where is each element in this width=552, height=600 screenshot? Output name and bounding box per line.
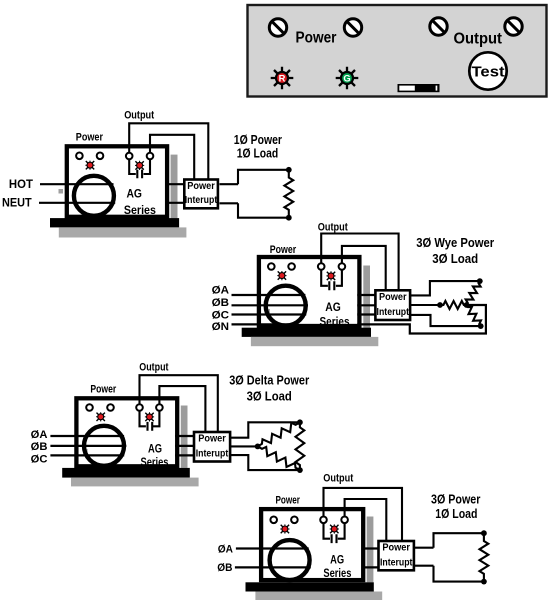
relay contact symbol (diag3) bbox=[140, 411, 160, 431]
wire output L terminal to interrupter (diag3) bbox=[140, 375, 218, 431]
wire output L terminal to interrupter (diag2) bbox=[321, 234, 398, 290]
svg-text:AG: AG bbox=[126, 187, 142, 201]
CT toroid (diag1) bbox=[74, 176, 114, 216]
AG monitor chassis box (diag1) bbox=[67, 146, 167, 217]
svg-text:Interupt: Interupt bbox=[196, 448, 229, 459]
label Output (diag3) bbox=[139, 362, 169, 374]
wire interrupter phase B to wye left (diag2) bbox=[411, 304, 440, 306]
svg-text:Power: Power bbox=[379, 292, 407, 303]
power input terminal 2 (diag3) bbox=[107, 404, 114, 411]
AG monitor chassis box (diag2) bbox=[259, 257, 360, 326]
output terminal R (diag1) bbox=[147, 153, 154, 160]
svg-text:AG: AG bbox=[325, 300, 341, 314]
svg-text:ØB: ØB bbox=[31, 441, 48, 453]
wye resistor R3 upper diagonal bbox=[466, 281, 481, 305]
svg-text:Interupt: Interupt bbox=[377, 307, 410, 318]
screw top-right bbox=[505, 18, 522, 35]
node wye center (diag2) bbox=[464, 302, 470, 308]
power input terminal 2 (diag2) bbox=[288, 263, 295, 270]
svg-text:Power: Power bbox=[296, 30, 337, 47]
output terminal R (diag2) bbox=[339, 263, 346, 270]
power interrupter box U3 (diag3) bbox=[194, 432, 230, 462]
red indicator LED R bbox=[271, 67, 294, 90]
svg-text:ØB: ØB bbox=[217, 562, 232, 574]
base shadow (diag1) bbox=[59, 227, 187, 237]
output terminal L (diag4) bbox=[320, 517, 327, 524]
wire interrupter to load top (diag4) bbox=[414, 547, 434, 549]
wire interrupter phase C to delta bottom (diag3) bbox=[231, 455, 300, 470]
green indicator LED G bbox=[336, 67, 359, 90]
svg-text:ØB: ØB bbox=[212, 297, 229, 309]
label phase C (diag3) bbox=[31, 453, 48, 465]
chassis base bar (diag3) bbox=[62, 468, 190, 478]
wire output L terminal to interrupter (diag4) bbox=[324, 488, 403, 540]
chassis base bar (diag1) bbox=[50, 218, 179, 227]
svg-text:Power: Power bbox=[382, 543, 410, 554]
load resistor R1 (diag1) bbox=[284, 170, 293, 218]
output terminal L (diag2) bbox=[318, 263, 325, 270]
label Power (diag3) bbox=[90, 384, 116, 396]
label AG Series (diag3) bbox=[141, 441, 169, 469]
svg-text:ØC: ØC bbox=[212, 310, 229, 322]
wire HOT (diag1) bbox=[40, 183, 185, 185]
svg-text:Output: Output bbox=[318, 222, 348, 234]
CT toroid (diag4) bbox=[270, 540, 310, 580]
AG monitor shadow bar right (diag4) bbox=[367, 517, 374, 583]
power LED (diag3) bbox=[96, 412, 105, 421]
delta resistor R7 right edge bbox=[296, 422, 305, 470]
title 1-phase load bbox=[237, 145, 278, 160]
wire interrupter phase A to delta top (diag3) bbox=[231, 422, 300, 437]
svg-text:Power: Power bbox=[76, 131, 104, 143]
wire interrupter phase C to wye bottom (diag2) bbox=[411, 315, 481, 326]
label phase C (diag2) bbox=[212, 310, 229, 322]
smudge artifact (diag1) bbox=[59, 189, 64, 194]
label Power (diag4) bbox=[276, 495, 301, 507]
title 1-phase power bbox=[234, 132, 282, 147]
wire interrupter phase A to wye top (diag2) bbox=[411, 281, 480, 295]
base shadow (diag4) bbox=[255, 592, 382, 600]
wire interrupter to load top (diag1) bbox=[220, 183, 239, 185]
CT toroid (diag2) bbox=[266, 286, 306, 326]
title 3-phase load (diag2) bbox=[432, 252, 478, 266]
output LED (diag4) bbox=[330, 524, 339, 533]
svg-text:Power: Power bbox=[187, 181, 215, 192]
wire phase A (diag3) bbox=[50, 435, 194, 437]
svg-text:Series: Series bbox=[141, 455, 169, 469]
smudge artifact (diag2) bbox=[266, 309, 270, 313]
screw mid-right bbox=[430, 18, 447, 35]
power LED (diag1) bbox=[85, 161, 94, 170]
svg-text:Series: Series bbox=[320, 314, 350, 328]
label phase A (diag2) bbox=[212, 284, 229, 296]
wire output R terminal to interrupter (diag4) bbox=[345, 499, 387, 540]
delta resistor R5 upper edge bbox=[258, 422, 300, 446]
node bottom (diag4) bbox=[481, 579, 487, 585]
svg-text:Power: Power bbox=[270, 244, 297, 256]
panel faceplate bbox=[248, 5, 547, 97]
power input terminal 2 (diag1) bbox=[97, 153, 104, 160]
CT toroid (diag3) bbox=[84, 426, 124, 466]
label phase A (diag3) bbox=[31, 429, 48, 441]
title 3-phase delta power bbox=[229, 374, 309, 388]
node wye top (diag2) bbox=[477, 278, 483, 284]
node wye bottom (diag2) bbox=[478, 323, 484, 329]
wire phase A (diag2) bbox=[232, 294, 376, 296]
load loop wiring (diag4) bbox=[434, 533, 484, 581]
wire phase B (diag4) bbox=[235, 566, 379, 568]
Test button bbox=[469, 52, 506, 89]
svg-text:3Ø Load: 3Ø Load bbox=[432, 252, 478, 266]
label phase A (diag4) bbox=[218, 543, 233, 555]
power LED (diag4) bbox=[280, 524, 289, 533]
screw top-left bbox=[269, 19, 286, 36]
svg-text:ØA: ØA bbox=[31, 429, 48, 441]
label Power (panel) bbox=[296, 30, 337, 47]
power interrupter box U2 (diag2) bbox=[375, 290, 410, 320]
wire output L terminal to interrupter (diag1) bbox=[129, 123, 208, 179]
output terminal R (diag3) bbox=[156, 404, 163, 411]
node bottom (diag1) bbox=[286, 215, 292, 221]
relay contact symbol (diag2) bbox=[321, 270, 342, 291]
wire phase C (diag2) bbox=[232, 313, 376, 315]
label AG Series (diag1) bbox=[124, 187, 156, 217]
wire output R terminal to interrupter (diag3) bbox=[159, 386, 205, 431]
relay contact symbol (diag4) bbox=[324, 523, 345, 543]
wye resistor R2 horizontal bbox=[440, 301, 467, 309]
output terminal R (diag4) bbox=[341, 517, 348, 524]
wire output R terminal to interrupter (diag1) bbox=[150, 135, 194, 179]
svg-text:Series: Series bbox=[124, 203, 156, 217]
AG monitor shadow bar right (diag1) bbox=[171, 155, 178, 219]
svg-text:1Ø Load: 1Ø Load bbox=[435, 507, 477, 521]
wire interrupter to load bottom (diag4) bbox=[414, 565, 434, 567]
wire output R terminal to interrupter (diag2) bbox=[342, 246, 386, 290]
wire interrupter phase B to delta apex (diag3) bbox=[231, 445, 258, 447]
svg-text:Interupt: Interupt bbox=[380, 557, 413, 568]
wire phase B (diag2) bbox=[232, 304, 376, 306]
chassis base bar (diag4) bbox=[246, 582, 374, 591]
power interrupter box U1 (diag1) bbox=[184, 180, 218, 209]
label phase B (diag3) bbox=[31, 441, 48, 453]
power input terminal 1 (diag3) bbox=[86, 404, 93, 411]
AG monitor chassis box (diag3) bbox=[76, 398, 177, 466]
chassis base bar (diag2) bbox=[242, 328, 371, 337]
svg-text:3Ø Load: 3Ø Load bbox=[247, 390, 292, 404]
svg-text:Output: Output bbox=[323, 473, 353, 485]
svg-text:Output: Output bbox=[139, 362, 169, 374]
title 3-phase load (diag3) bbox=[247, 390, 292, 404]
power input terminal 1 (diag2) bbox=[268, 263, 275, 270]
svg-text:1Ø Load: 1Ø Load bbox=[237, 145, 278, 160]
output LED (diag3) bbox=[145, 412, 154, 421]
load resistor R8 (diag4) bbox=[480, 533, 489, 581]
output terminal L (diag3) bbox=[136, 404, 143, 411]
label Output (diag1) bbox=[124, 110, 154, 122]
svg-text:ØN: ØN bbox=[212, 321, 229, 333]
relay contact symbol (diag1) bbox=[129, 159, 150, 178]
wire phase A (diag4) bbox=[236, 547, 379, 549]
base shadow (diag2) bbox=[251, 337, 378, 346]
svg-text:3Ø Power: 3Ø Power bbox=[431, 492, 481, 506]
svg-text:Power: Power bbox=[276, 495, 301, 507]
power input terminal 1 (diag1) bbox=[76, 153, 83, 160]
label Output (panel) bbox=[454, 31, 503, 48]
label Output (diag4) bbox=[323, 473, 353, 485]
label window bar bbox=[398, 84, 440, 92]
svg-text:3Ø Delta Power: 3Ø Delta Power bbox=[229, 374, 309, 388]
output terminal L (diag1) bbox=[126, 153, 133, 160]
AG monitor shadow bar right (diag3) bbox=[181, 406, 188, 468]
node delta top (diag3) bbox=[297, 419, 303, 425]
node top (diag4) bbox=[481, 530, 487, 536]
svg-text:Output: Output bbox=[124, 110, 154, 122]
svg-text:R: R bbox=[279, 72, 286, 83]
label phase B (diag4) bbox=[217, 562, 232, 574]
wire phase C (diag3) bbox=[50, 454, 194, 456]
svg-text:Power: Power bbox=[90, 384, 116, 396]
wye resistor R4 lower diagonal bbox=[467, 305, 482, 326]
label NEUT bbox=[2, 197, 32, 209]
title 3-phase power (diag4) bbox=[431, 492, 481, 506]
AG monitor chassis box (diag4) bbox=[261, 509, 363, 580]
wire neutral to wye center (diag2) bbox=[232, 305, 486, 334]
power input terminal 2 (diag4) bbox=[291, 517, 298, 524]
svg-text:ØC: ØC bbox=[31, 453, 48, 465]
title 3-phase wye power bbox=[416, 236, 494, 250]
AG monitor shadow bar right (diag2) bbox=[363, 266, 370, 329]
screw mid-left bbox=[344, 19, 361, 36]
svg-text:Interupt: Interupt bbox=[185, 195, 218, 206]
wire interrupter to load bottom (diag1) bbox=[220, 202, 239, 204]
smudge artifact (diag3) bbox=[84, 449, 88, 453]
svg-text:AG: AG bbox=[148, 441, 162, 455]
label neutral N (diag2) bbox=[212, 321, 229, 333]
smudge artifact (diag4) bbox=[268, 563, 272, 567]
svg-text:G: G bbox=[343, 72, 350, 83]
title 1-phase load (diag4) bbox=[435, 507, 477, 521]
wire phase B (diag3) bbox=[50, 445, 194, 447]
svg-text:Power: Power bbox=[198, 434, 226, 445]
label AG Series (diag2) bbox=[320, 300, 350, 328]
power interrupter box U4 (diag4) bbox=[379, 541, 414, 570]
label AG Series (diag4) bbox=[323, 553, 351, 580]
node wye left (diag2) bbox=[437, 302, 443, 308]
svg-text:HOT: HOT bbox=[9, 179, 33, 191]
output LED (diag2) bbox=[326, 271, 335, 280]
power LED (diag2) bbox=[277, 271, 286, 280]
node top (diag1) bbox=[286, 167, 292, 173]
svg-text:Test: Test bbox=[472, 64, 505, 80]
output LED (diag1) bbox=[135, 161, 144, 170]
power input terminal 1 (diag4) bbox=[270, 517, 277, 524]
load loop wiring (diag1) bbox=[238, 170, 289, 218]
node delta bottom (diag3) bbox=[297, 467, 303, 473]
svg-text:ØA: ØA bbox=[218, 543, 233, 555]
svg-text:NEUT: NEUT bbox=[2, 197, 32, 209]
label HOT bbox=[9, 179, 33, 191]
base shadow (diag3) bbox=[71, 478, 199, 487]
wire NEUT (diag1) bbox=[39, 202, 185, 204]
svg-text:3Ø Wye Power: 3Ø Wye Power bbox=[416, 236, 494, 250]
delta resistor R6 lower edge bbox=[258, 446, 300, 470]
svg-text:Output: Output bbox=[454, 31, 503, 48]
svg-text:Series: Series bbox=[323, 566, 351, 580]
node delta apex (diag3) bbox=[255, 444, 261, 450]
label Output (diag2) bbox=[318, 222, 348, 234]
svg-text:AG: AG bbox=[330, 553, 344, 567]
svg-text:ØA: ØA bbox=[212, 284, 229, 296]
label phase B (diag2) bbox=[212, 297, 229, 309]
label Power (diag2) bbox=[270, 244, 297, 256]
label Power (diag1) bbox=[76, 131, 104, 143]
